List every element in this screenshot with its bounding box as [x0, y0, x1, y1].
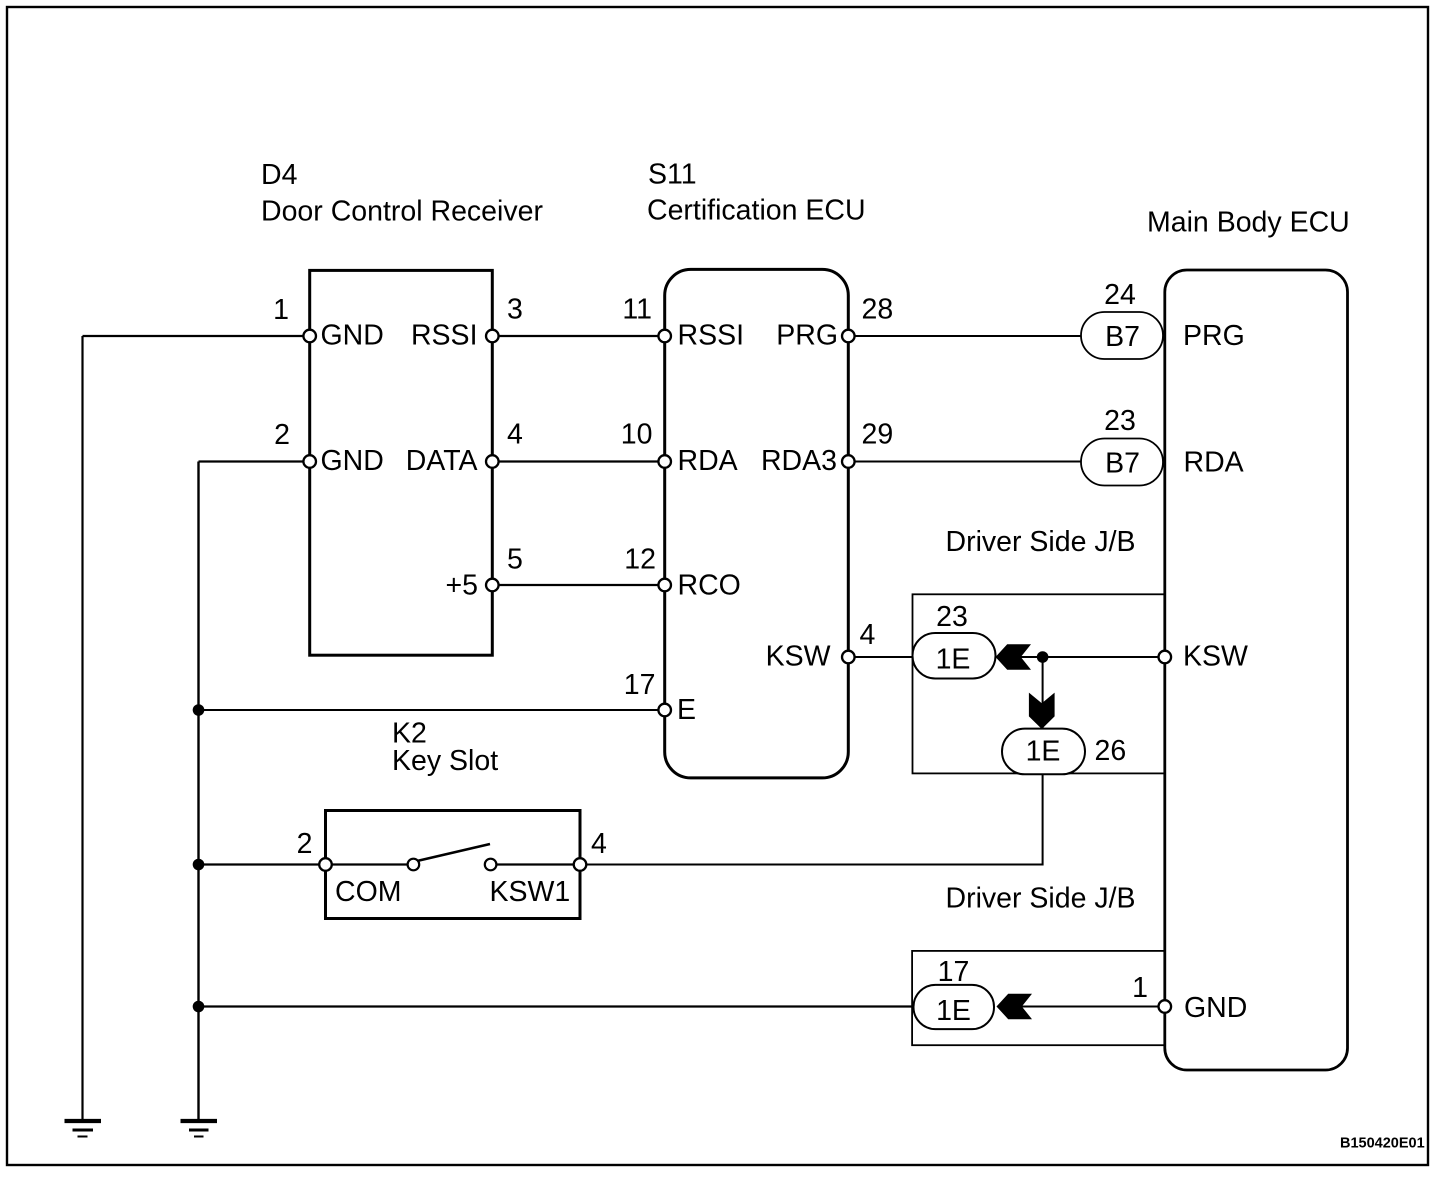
svg-text:D4: D4 — [261, 159, 298, 191]
wire GND bottom left to 1E — [199, 1005, 914, 1007]
svg-text:12: 12 — [624, 544, 656, 576]
svg-text:Driver Side J/B: Driver Side J/B — [946, 883, 1136, 915]
wire +5 to RCO — [492, 584, 664, 586]
wire ground trunk 1 vertical — [81, 336, 83, 1120]
svg-text:B7: B7 — [1105, 321, 1140, 353]
svg-text:17: 17 — [624, 669, 656, 701]
wire KSW drop to down arrow — [1042, 657, 1044, 729]
svg-text:B7: B7 — [1105, 448, 1140, 480]
junction dot KSW branch — [1037, 651, 1049, 663]
svg-text:DATA: DATA — [406, 445, 478, 477]
pin circle D4 pin3 RSSI — [486, 330, 499, 343]
svg-text:1: 1 — [1132, 972, 1148, 1004]
svg-text:28: 28 — [862, 294, 894, 326]
svg-text:10: 10 — [621, 419, 653, 451]
svg-text:23: 23 — [936, 601, 968, 633]
svg-text:RCO: RCO — [678, 570, 741, 602]
wire switch COM side — [326, 863, 414, 865]
ground symbol 1 — [65, 1121, 102, 1137]
switch contact circle KSW1 — [485, 859, 497, 871]
Driver Side J/B box 2 — [912, 951, 1165, 1045]
junction dot K2 wire on trunk 2 — [193, 859, 205, 871]
svg-text:11: 11 — [622, 294, 652, 326]
wire RSSI D4 to S11 — [492, 335, 664, 337]
svg-text:5: 5 — [507, 544, 523, 576]
wire KSW S11 to 1E — [848, 656, 913, 658]
connector B7 oval (pin 23) — [1081, 439, 1163, 486]
arrow left into 1E 23 — [996, 644, 1032, 670]
wire switch KSW1 side — [491, 863, 580, 865]
wire GND pin1 horizontal — [83, 335, 310, 337]
svg-text:2: 2 — [274, 419, 290, 451]
wire E to trunk 2 — [199, 709, 665, 711]
wire DATA to RDA — [492, 460, 664, 462]
connector 1E oval (pin 23) — [913, 633, 996, 679]
svg-text:RSSI: RSSI — [678, 320, 745, 352]
svg-text:4: 4 — [860, 619, 876, 651]
component Main Body ECU box — [1165, 270, 1348, 1070]
wire PRG to B7 — [848, 335, 1083, 337]
pin circle D4 pin2 GND — [303, 455, 316, 468]
wire KSW from arrow to Main Body ECU — [1018, 656, 1165, 658]
wire trunk2 to K2 pin 2 — [199, 863, 325, 865]
pin circle Main Body ECU KSW — [1159, 651, 1172, 664]
svg-text:KSW: KSW — [1183, 641, 1248, 673]
pin circle D4 pin1 GND — [303, 330, 316, 343]
component S11 Certification ECU box — [665, 269, 849, 778]
pin circle Main Body ECU pin1 GND — [1159, 1000, 1172, 1013]
junction dot GND wire on trunk 2 — [193, 1001, 205, 1013]
svg-text:1: 1 — [273, 294, 289, 326]
pin circle S11 pin10 RDA — [658, 455, 671, 468]
svg-text:29: 29 — [862, 419, 894, 451]
svg-text:GND: GND — [321, 320, 384, 352]
svg-text:26: 26 — [1095, 735, 1127, 767]
arrow down into 1E 26 — [1029, 693, 1055, 729]
switch contact circle COM — [408, 859, 420, 871]
pin circle D4 pin4 DATA — [486, 455, 499, 468]
pin circle K2 pin2 — [319, 858, 332, 871]
svg-text:Door Control Receiver: Door Control Receiver — [261, 196, 543, 228]
wire GND bottom right from arrow to Main Body ECU — [1018, 1006, 1165, 1008]
pin circle S11 pin12 RCO — [658, 579, 671, 592]
wire GND pin2 horizontal — [199, 460, 310, 462]
svg-text:24: 24 — [1104, 279, 1136, 311]
svg-text:1E: 1E — [936, 644, 971, 676]
pin circle S11 pin11 RSSI — [658, 330, 671, 343]
svg-text:COM: COM — [335, 876, 402, 908]
svg-text:Key Slot: Key Slot — [392, 745, 498, 777]
pin circle K2 pin4 — [574, 858, 587, 871]
svg-text:2: 2 — [297, 828, 313, 860]
component D4 Door Control Receiver box — [310, 270, 493, 655]
wire ground trunk 2 vertical — [197, 462, 199, 1120]
svg-text:Certification ECU: Certification ECU — [647, 195, 866, 227]
ground symbol 2 — [181, 1121, 218, 1137]
svg-text:RDA3: RDA3 — [761, 445, 837, 477]
svg-text:3: 3 — [507, 294, 523, 326]
svg-text:RDA: RDA — [1184, 447, 1244, 479]
svg-text:23: 23 — [1104, 405, 1136, 437]
wire 1E 26 down to key slot wire — [580, 774, 1043, 865]
switch lever K2 — [417, 844, 490, 861]
connector 1E oval (pin 26) — [1002, 729, 1085, 775]
junction dot E wire on trunk 2 — [193, 704, 205, 716]
svg-text:Driver Side J/B: Driver Side J/B — [946, 526, 1136, 558]
connector B7 oval (pin 24) — [1081, 312, 1163, 359]
Driver Side J/B box 1 — [913, 594, 1165, 773]
svg-text:RSSI: RSSI — [411, 320, 478, 352]
svg-text:4: 4 — [507, 419, 523, 451]
svg-text:Main Body ECU: Main Body ECU — [1147, 207, 1350, 239]
pin circle S11 pin28 PRG — [842, 330, 855, 343]
svg-text:GND: GND — [321, 445, 384, 477]
arrow left into 1E 17 — [997, 994, 1033, 1019]
pin circle S11 pin4 KSW — [842, 651, 855, 664]
svg-text:+5: +5 — [446, 570, 479, 602]
wire RDA3 to B7 — [848, 461, 1083, 463]
svg-text:1E: 1E — [1026, 736, 1061, 768]
svg-text:S11: S11 — [648, 159, 697, 191]
pin circle D4 pin5 +5 — [486, 579, 499, 592]
svg-text:KSW: KSW — [766, 641, 831, 673]
svg-text:E: E — [677, 694, 696, 726]
svg-text:17: 17 — [938, 956, 970, 988]
component K2 Key Slot box — [326, 811, 581, 919]
svg-text:GND: GND — [1184, 992, 1247, 1024]
pin circle S11 pin17 E — [658, 704, 671, 717]
svg-text:PRG: PRG — [1183, 320, 1245, 352]
svg-text:KSW1: KSW1 — [490, 876, 571, 908]
svg-text:B150420E01: B150420E01 — [1340, 1136, 1425, 1152]
svg-text:4: 4 — [591, 828, 607, 860]
pin circle S11 pin29 RDA3 — [842, 455, 855, 468]
svg-text:1E: 1E — [936, 995, 971, 1027]
connector 1E oval (pin 17) — [914, 985, 995, 1029]
svg-text:PRG: PRG — [776, 320, 838, 352]
svg-text:RDA: RDA — [678, 445, 738, 477]
